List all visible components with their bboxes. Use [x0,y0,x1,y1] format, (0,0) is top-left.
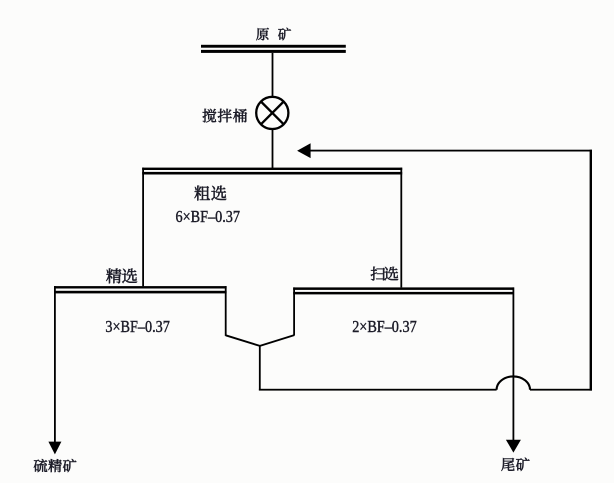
wire: middlings right vertical up to recycle arrow [590,150,592,391]
arrowhead to 尾矿 [506,440,521,453]
wire: cleaner tailings diagonal to V junction [226,335,260,346]
wire: mixer to rougher bar [272,129,274,168]
wire: scavenger concentrate leg down [293,287,295,335]
wire: V junction down [259,345,261,390]
label 扫选 [371,267,399,281]
wire: recycle return line (top horizontal) [310,150,592,152]
wire: middlings bottom horizontal (right of bridge) [530,389,592,391]
feed bar (double line) [201,45,346,53]
label 精选 [106,268,137,283]
arrowhead into rougher feed [297,143,311,158]
rougher bar 粗选 (double line with legs) [142,168,402,175]
cleaner bar 精选 (double line) [54,286,227,293]
svg-text:2×BF–0.37: 2×BF–0.37 [352,317,417,336]
label 粗选 [194,186,226,201]
wire: cleaner concentrate line down [54,286,56,442]
wire: rougher left leg down to cleaner bar [142,168,144,287]
scavenger bar 扫选 (double line) [293,287,514,294]
wire: rougher right leg down to scavenger bar [400,168,402,288]
wire: scavenger concentrate diagonal to V junction [260,335,294,346]
label 硫精矿 (sulfur concentrate) [34,459,77,472]
label 搅拌桶 [203,109,247,123]
svg-text:3×BF–0.37: 3×BF–0.37 [105,317,170,336]
arrowhead to 硫精矿 [48,442,61,455]
wire: middlings bottom horizontal (left of bridge) [259,389,497,391]
label 尾矿 (tailings) [501,458,529,471]
label 原矿 (raw ore) [256,28,291,41]
mixer 搅拌桶 (circle with X) [256,97,288,129]
wire: scavenger tailings line down [513,287,515,440]
wire: feed line from bar to mixer [272,53,274,97]
svg-text:6×BF–0.37: 6×BF–0.37 [176,207,241,226]
wire: cleaner tailings leg down [225,286,227,336]
bridge hop over tailings line [497,376,530,389]
